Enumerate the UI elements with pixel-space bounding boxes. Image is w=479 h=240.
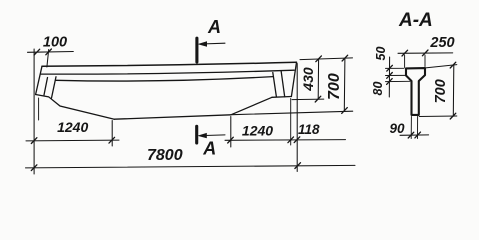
right block rib line 2	[281, 71, 285, 97]
beam flange bottom line	[41, 70, 294, 74]
tick section 700 bottom	[450, 113, 456, 119]
extension line beam bottom right corner	[290, 99, 292, 146]
tick 50 top	[387, 65, 393, 71]
dim line 430 vertical	[317, 59, 319, 99]
tick 7800 left	[31, 165, 37, 171]
svg-text:A-A: A-A	[398, 10, 433, 31]
svg-text:118: 118	[298, 122, 320, 137]
svg-text:100: 100	[43, 35, 67, 51]
tick 100 right	[46, 49, 52, 55]
svg-text:7800: 7800	[147, 147, 183, 164]
dim line 1240 left	[26, 139, 119, 142]
tick 430 top	[316, 56, 322, 62]
tick section 700 top	[450, 62, 456, 68]
section ext 700 bottom	[419, 115, 457, 118]
section cut mark bottom bar	[195, 126, 198, 143]
svg-text:700: 700	[326, 73, 343, 100]
ext 50 bottom	[386, 74, 406, 76]
ext 90 left	[410, 117, 412, 139]
ext 250 left	[404, 55, 406, 68]
section ext 700 top	[426, 65, 457, 68]
beam bottom right slope	[231, 97, 272, 115]
section A-A outline	[406, 68, 425, 115]
tick 700 bottom	[342, 108, 348, 114]
tick	[228, 137, 234, 143]
extension 700 bottom long	[232, 111, 353, 115]
svg-text:1240: 1240	[57, 119, 88, 135]
svg-text:1240: 1240	[242, 123, 273, 139]
tick 250 left	[402, 50, 408, 56]
extension line 100 right	[47, 50, 49, 68]
extension line left corner	[38, 98, 40, 120]
svg-text:250: 250	[429, 35, 454, 51]
tick	[109, 137, 115, 143]
extension line 1240 left	[111, 121, 113, 147]
extension line left long	[33, 49, 35, 174]
right block rib line 1	[273, 73, 277, 97]
svg-text:430: 430	[300, 67, 316, 92]
section dim 90 line	[400, 134, 429, 136]
extension line beam top right corner	[296, 64, 298, 172]
extension top right horizontal	[300, 58, 353, 60]
section cut mark bottom arrow	[201, 134, 225, 137]
beam right bearing bottom	[272, 96, 291, 99]
tick	[294, 137, 300, 143]
extension line 1240 right	[230, 117, 232, 148]
svg-text:80: 80	[371, 82, 385, 96]
tick 90 right	[415, 132, 421, 138]
svg-text:A: A	[207, 17, 221, 37]
svg-text:700: 700	[433, 79, 449, 103]
left block rib line 2	[52, 77, 57, 98]
beam bottom mid	[114, 115, 231, 119]
tick 50 bottom	[387, 73, 393, 79]
section cut mark top arrow	[201, 42, 225, 45]
tick 80 bottom	[387, 79, 393, 85]
beam left bearing bottom	[36, 95, 115, 120]
section cut mark top bar	[195, 38, 198, 62]
ext 250 right	[424, 55, 426, 67]
tick 90 left	[408, 132, 414, 138]
beam left end face	[36, 66, 42, 94]
section dim 50-80 vertical line	[388, 57, 390, 97]
extension 430 bottom	[292, 98, 324, 101]
tick	[31, 138, 37, 144]
tick 7800 right	[295, 163, 301, 169]
tick 250 right	[422, 50, 428, 56]
ext 50 top	[386, 67, 405, 69]
dim line 700 vertical elevation	[343, 58, 346, 110]
beam top edge	[42, 62, 297, 66]
svg-text:90: 90	[389, 121, 405, 136]
dim line 1240 right and 118	[225, 139, 346, 142]
tick	[288, 137, 294, 143]
section dim 250 line	[398, 52, 453, 54]
tick 100 left	[34, 49, 40, 55]
left block rib line 1	[44, 78, 48, 96]
svg-text:A: A	[202, 139, 216, 159]
svg-text:50: 50	[374, 47, 388, 61]
section dim 700 vertical	[452, 65, 455, 116]
ext 80 bottom	[386, 80, 411, 82]
tick 700 top	[342, 55, 348, 61]
dim line 7800	[26, 165, 356, 168]
beam taper bottom line	[56, 77, 273, 81]
beam right end face	[291, 62, 296, 96]
dim line 100	[28, 51, 74, 54]
ext 90 right	[417, 117, 419, 139]
tick 430 bottom	[315, 96, 321, 102]
